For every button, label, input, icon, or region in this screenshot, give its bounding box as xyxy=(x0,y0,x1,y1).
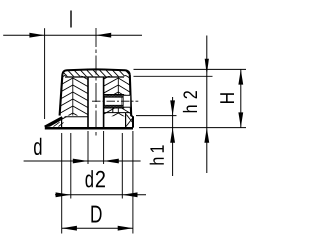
recess ceiling right xyxy=(104,112,130,114)
label h1 xyxy=(150,145,164,164)
ext line bore right xyxy=(103,131,105,164)
bushing thread hatch bottom xyxy=(104,105,125,107)
ext line D left xyxy=(61,133,63,234)
bushing thread line bottom xyxy=(104,104,123,106)
setscrew centerline xyxy=(92,100,138,102)
label d2 (2) xyxy=(96,171,105,187)
skirt right outer edge xyxy=(132,116,134,127)
arrow H top xyxy=(238,69,243,84)
bushing thread line top xyxy=(104,96,123,98)
screw end face line xyxy=(121,97,123,105)
bushing thread hatch top xyxy=(104,95,125,97)
ext line bore left xyxy=(87,131,89,164)
dim line h2 xyxy=(206,36,208,174)
ext line flange bottom xyxy=(139,127,246,129)
dim line d xyxy=(24,160,141,162)
knob left wall outline xyxy=(60,75,63,116)
dim line l xyxy=(3,34,142,36)
arrow H bottom xyxy=(238,112,243,127)
knob right wall outline xyxy=(130,75,131,116)
setscrew bushing M1 xyxy=(104,95,123,108)
flange top right xyxy=(131,115,133,117)
bore right wall xyxy=(103,77,105,128)
ext line inner ceiling xyxy=(134,75,213,77)
label H xyxy=(220,93,234,103)
dim line d2 xyxy=(55,194,146,196)
arrow d right xyxy=(104,159,119,164)
hub outer stub xyxy=(112,108,114,113)
pointer inner line xyxy=(50,117,67,127)
pointer wedge fill xyxy=(45,120,60,127)
arrow h2 bottom xyxy=(204,128,209,143)
wall hole bottom edge xyxy=(124,106,131,108)
pointer top edge xyxy=(45,117,63,127)
recess ceiling left xyxy=(65,116,88,118)
label d xyxy=(34,138,41,155)
arrow d2 left xyxy=(56,192,71,197)
arrow D right xyxy=(118,226,133,231)
inner ceiling line xyxy=(65,76,124,78)
label l xyxy=(70,10,71,27)
wall hole top edge xyxy=(124,94,131,96)
label h2 xyxy=(183,91,197,112)
label d2 (d) xyxy=(86,170,93,187)
flange bottom edge xyxy=(45,127,133,130)
arrow h1 top xyxy=(170,100,175,115)
right wall hatch xyxy=(103,71,132,136)
ext line flange top xyxy=(136,115,177,117)
top wall hatch xyxy=(60,69,133,78)
bore left wall xyxy=(87,77,89,128)
ext line flange/pointer left xyxy=(44,28,46,119)
label D xyxy=(91,206,101,223)
knob top dome outline xyxy=(62,69,129,74)
dim line D xyxy=(62,227,133,229)
arrow l right xyxy=(96,33,111,38)
ext line d2 right xyxy=(121,133,123,199)
vertical centerline xyxy=(95,28,97,137)
arrow d2 right xyxy=(122,192,137,197)
pointer hatch xyxy=(54,122,64,126)
arrow l left xyxy=(29,33,44,38)
arrow d left xyxy=(73,159,88,164)
ext line knob top xyxy=(134,68,247,70)
skirt right section hatch xyxy=(126,115,133,127)
arrow h2 top xyxy=(205,59,209,75)
inner wall right lower xyxy=(125,113,127,128)
ext line d2 left xyxy=(70,133,72,199)
arrow h1 bottom xyxy=(170,128,175,143)
skirt left outer edge xyxy=(61,118,63,127)
dim line h1 xyxy=(172,97,174,176)
ext line D right xyxy=(132,131,134,234)
dim line H xyxy=(240,69,242,127)
left wall hatch xyxy=(60,71,90,136)
arrow D left xyxy=(62,226,77,231)
wall hole (white) xyxy=(124,95,131,107)
